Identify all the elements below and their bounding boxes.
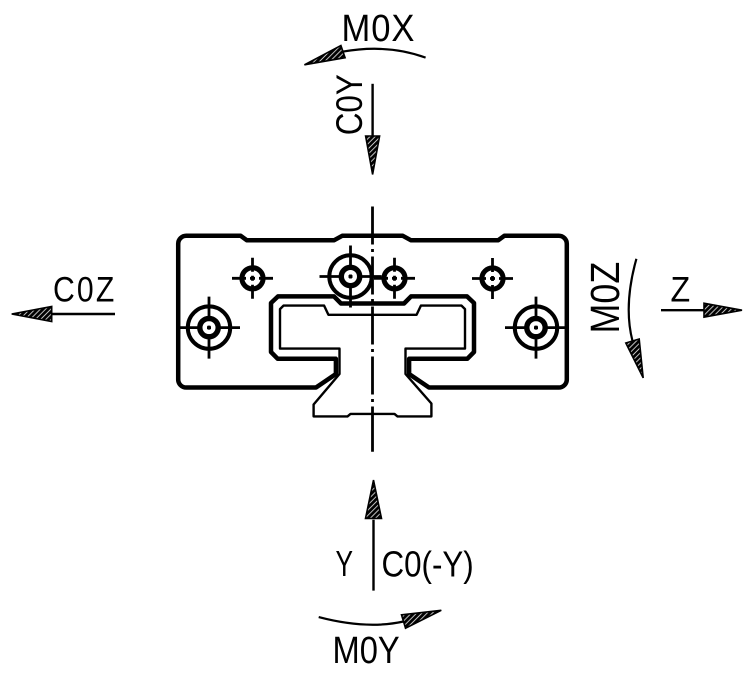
svg-text:C0Y: C0Y xyxy=(330,74,371,135)
svg-text:M0Y: M0Y xyxy=(333,629,400,672)
svg-text:M0Z: M0Z xyxy=(583,262,629,334)
svg-text:M0X: M0X xyxy=(342,6,416,49)
svg-text:Z: Z xyxy=(671,271,691,310)
svg-text:C0(-Y): C0(-Y) xyxy=(382,544,474,585)
svg-text:C0Z: C0Z xyxy=(53,269,116,309)
svg-text:Y: Y xyxy=(336,543,354,584)
